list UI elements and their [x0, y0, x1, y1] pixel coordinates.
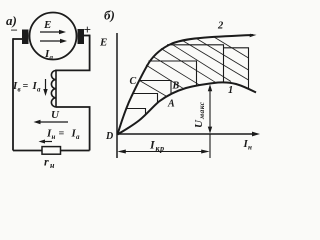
brush left (negative)	[22, 30, 29, 45]
arrow U (left)	[38, 121, 68, 123]
arrow Ia (lower, right)	[40, 40, 63, 42]
axis E (vertical)	[116, 33, 118, 158]
dimension Uмакс (vertical double arrow at x=210)	[209, 88, 211, 131]
svg-text:а: а	[50, 54, 54, 62]
arrow Iв (down)	[45, 79, 47, 92]
wire: left brush to left rail	[13, 38, 22, 40]
extension line below axis at x=210	[209, 134, 211, 158]
svg-text:н: н	[52, 133, 56, 141]
field winding coil (series excitation)	[55, 70, 57, 108]
svg-text:а: а	[76, 133, 80, 141]
wire: left rail down	[12, 38, 14, 150]
svg-text:2: 2	[217, 21, 224, 32]
svg-text:D: D	[105, 131, 113, 142]
svg-text:A: A	[167, 99, 175, 110]
svg-text:B: B	[172, 81, 180, 92]
svg-text:C: C	[130, 76, 137, 87]
arrow E (upper, right)	[40, 31, 62, 33]
svg-text:r: r	[44, 155, 49, 169]
svg-text:−: −	[10, 23, 18, 38]
svg-text:U: U	[51, 109, 60, 121]
svg-text:макс: макс	[197, 101, 206, 120]
svg-text:=: =	[59, 129, 65, 140]
wire: right brush to right rail	[84, 35, 90, 37]
svg-text:кр: кр	[156, 144, 165, 153]
wire: to field coil top	[56, 69, 91, 71]
wire: right rail down to coil top	[89, 35, 91, 71]
dimension Iкр (horizontal double arrow at y=151.5)	[121, 151, 206, 153]
svg-text:E: E	[43, 19, 51, 31]
wire: right rail down to bottom	[89, 107, 91, 151]
wire: coil bottom to right rail	[56, 106, 91, 108]
arrow Iн (left)	[42, 141, 52, 143]
wire: bottom rail	[13, 150, 90, 152]
svg-text:н: н	[248, 144, 252, 152]
curve 2 (magnetization characteristic)	[118, 35, 254, 135]
brush right (positive)	[78, 29, 85, 44]
svg-text:U: U	[193, 119, 205, 128]
hatch lines between curves	[140, 37, 249, 96]
svg-text:б): б)	[104, 8, 115, 23]
svg-text:E: E	[99, 37, 107, 49]
curve 1 (external characteristic)	[118, 82, 257, 134]
svg-text:в: в	[18, 86, 21, 94]
svg-text:а: а	[37, 86, 41, 94]
axis Iн (horizontal)	[117, 133, 256, 135]
label Uмакс (rotated)	[193, 101, 206, 128]
staircase of self-excitation build-up	[127, 45, 249, 115]
generator armature G (circle)	[30, 13, 77, 60]
svg-text:1: 1	[228, 85, 233, 96]
load resistor rн	[42, 147, 61, 155]
svg-text:н: н	[50, 161, 55, 170]
svg-text:=: =	[23, 81, 29, 92]
